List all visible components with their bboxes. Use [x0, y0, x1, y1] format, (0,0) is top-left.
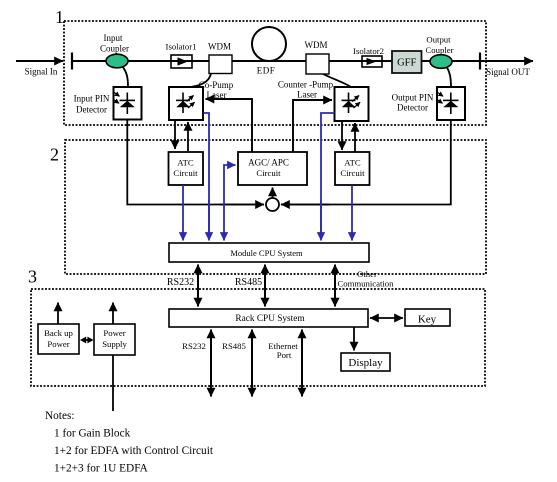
svg-text:Port: Port: [277, 350, 292, 360]
svg-text:Communication: Communication: [338, 279, 395, 289]
svg-text:Circuit: Circuit: [340, 168, 365, 178]
svg-text:Notes:: Notes:: [45, 410, 75, 422]
svg-text:Output PIN: Output PIN: [392, 93, 434, 103]
svg-text:Supply: Supply: [102, 339, 127, 349]
svg-text:RS232: RS232: [167, 277, 194, 288]
svg-text:ATC: ATC: [177, 158, 194, 168]
svg-text:ATC: ATC: [344, 158, 361, 168]
svg-text:Key: Key: [418, 314, 437, 326]
svg-text:RS485: RS485: [235, 277, 262, 288]
svg-text:Co-Pump: Co-Pump: [199, 80, 234, 90]
svg-text:1+2 for EDFA with Control Circ: 1+2 for EDFA with Control Circuit: [54, 445, 214, 457]
svg-text:1+2+3 for 1U EDFA: 1+2+3 for 1U EDFA: [54, 463, 149, 475]
svg-text:Module CPU System: Module CPU System: [230, 248, 303, 258]
svg-text:Detector: Detector: [397, 103, 428, 113]
svg-text:Power: Power: [103, 328, 125, 338]
svg-text:Output: Output: [426, 35, 451, 45]
svg-text:Power: Power: [47, 339, 69, 349]
svg-text:RS232: RS232: [182, 341, 206, 351]
svg-text:Isolator1: Isolator1: [166, 42, 197, 52]
svg-text:Detector: Detector: [76, 105, 107, 115]
svg-text:Circuit: Circuit: [256, 168, 281, 178]
svg-text:Laser: Laser: [297, 90, 317, 100]
svg-text:Input: Input: [104, 33, 123, 43]
svg-text:Rack CPU System: Rack CPU System: [235, 314, 305, 324]
svg-text:Isolator2: Isolator2: [353, 46, 384, 56]
svg-text:Signal In: Signal In: [25, 67, 58, 77]
svg-text:Circuit: Circuit: [173, 168, 198, 178]
svg-text:3: 3: [28, 267, 37, 287]
svg-text:WDM: WDM: [208, 42, 231, 52]
svg-text:EDF: EDF: [257, 66, 276, 76]
svg-text:Coupler: Coupler: [100, 44, 129, 54]
svg-text:GFF: GFF: [397, 58, 416, 69]
svg-text:Coupler: Coupler: [426, 45, 454, 55]
svg-text:AGC/ APC: AGC/ APC: [248, 158, 289, 168]
svg-text:Display: Display: [348, 357, 383, 369]
svg-text:RS485: RS485: [222, 341, 246, 351]
svg-text:Signal OUT: Signal OUT: [486, 67, 530, 77]
svg-text:Other: Other: [357, 269, 377, 279]
svg-text:Back up: Back up: [44, 328, 73, 338]
svg-text:WDM: WDM: [305, 40, 328, 50]
svg-text:1: 1: [55, 7, 64, 27]
svg-text:Input PIN: Input PIN: [74, 94, 110, 104]
svg-text:1 for Gain Block: 1 for Gain Block: [54, 428, 131, 440]
svg-text:Counter -Pump: Counter -Pump: [278, 80, 334, 90]
svg-text:2: 2: [50, 145, 59, 165]
